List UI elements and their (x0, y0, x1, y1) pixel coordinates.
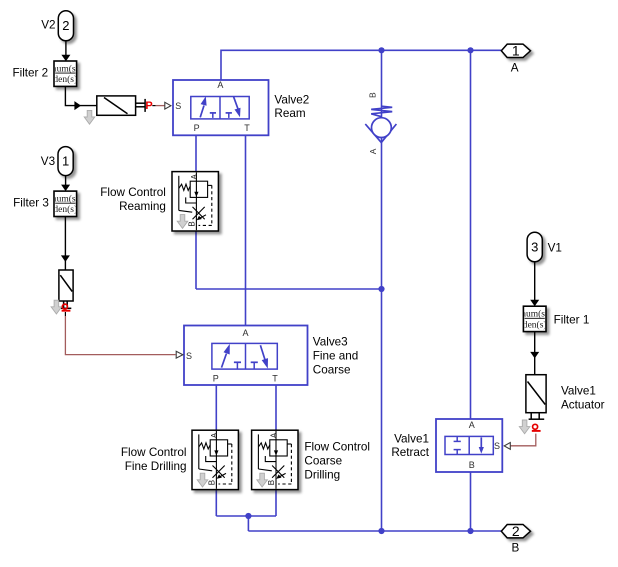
svg-text:Retract: Retract (391, 446, 429, 459)
svg-text:Fine and: Fine and (313, 349, 358, 362)
svg-text:3: 3 (531, 239, 538, 254)
svg-text:2: 2 (62, 18, 69, 33)
svg-text:Flow Control: Flow Control (304, 440, 370, 453)
svg-text:Filter 2: Filter 2 (12, 66, 48, 79)
svg-text:Coarse: Coarse (304, 454, 342, 467)
svg-text:den(s): den(s) (53, 204, 77, 215)
svg-text:V2: V2 (41, 18, 55, 31)
svg-text:Reaming: Reaming (119, 200, 166, 213)
svg-text:S: S (175, 101, 181, 111)
svg-text:V1: V1 (548, 241, 562, 254)
svg-text:2: 2 (512, 523, 520, 539)
svg-text:T: T (244, 123, 250, 133)
svg-text:A: A (469, 420, 475, 430)
svg-text:S: S (494, 441, 500, 451)
svg-text:Drilling: Drilling (304, 468, 340, 481)
svg-text:Ream: Ream (274, 107, 305, 120)
svg-text:Filter 3: Filter 3 (13, 196, 49, 209)
svg-text:A: A (217, 80, 223, 90)
svg-text:A: A (243, 328, 249, 338)
svg-text:1: 1 (62, 153, 69, 168)
svg-text:Valve2: Valve2 (274, 93, 309, 106)
svg-text:Valve1: Valve1 (394, 432, 429, 445)
svg-text:Actuator: Actuator (561, 399, 605, 412)
svg-text:Fine Drilling: Fine Drilling (125, 460, 187, 473)
svg-text:P: P (145, 100, 152, 112)
svg-text:P: P (213, 373, 219, 383)
svg-text:B: B (512, 541, 520, 554)
svg-text:B: B (469, 460, 475, 470)
svg-text:Valve1: Valve1 (561, 385, 596, 398)
svg-text:Valve3: Valve3 (313, 335, 348, 348)
svg-text:S: S (186, 351, 192, 361)
svg-text:Coarse: Coarse (313, 363, 351, 376)
svg-text:A: A (368, 148, 378, 154)
svg-text:P: P (194, 123, 200, 133)
svg-text:Flow Control: Flow Control (100, 186, 166, 199)
svg-text:Filter 1: Filter 1 (554, 313, 590, 326)
svg-text:1: 1 (512, 43, 520, 59)
svg-text:Flow Control: Flow Control (121, 446, 187, 459)
svg-text:B: B (368, 92, 378, 98)
svg-text:den(s): den(s) (523, 319, 547, 330)
svg-text:den(s): den(s) (53, 74, 77, 85)
svg-text:T: T (272, 373, 278, 383)
svg-text:A: A (511, 61, 519, 74)
svg-text:V3: V3 (41, 155, 55, 168)
